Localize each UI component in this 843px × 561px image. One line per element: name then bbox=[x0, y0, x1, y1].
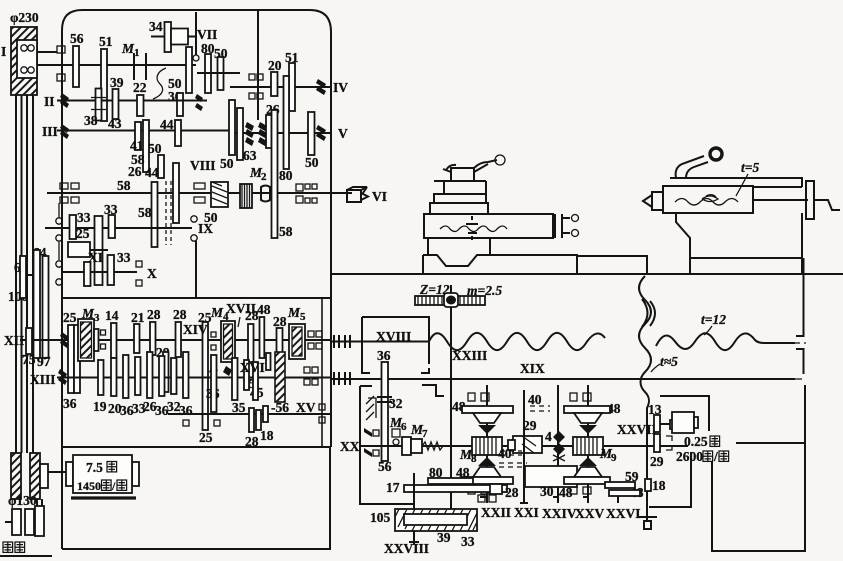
svg-text:0.25: 0.25 bbox=[684, 434, 708, 449]
svg-text:63: 63 bbox=[243, 148, 257, 163]
svg-text:29: 29 bbox=[523, 418, 537, 433]
svg-text:XVI: XVI bbox=[240, 360, 265, 375]
svg-text:XXII: XXII bbox=[481, 505, 511, 520]
svg-text:-56: -56 bbox=[271, 400, 289, 415]
svg-text:32: 32 bbox=[389, 396, 403, 411]
svg-text:36: 36 bbox=[179, 403, 193, 418]
svg-text:22: 22 bbox=[133, 80, 147, 95]
svg-text:XIX: XIX bbox=[520, 361, 545, 376]
svg-text:26: 26 bbox=[128, 164, 142, 179]
svg-text:XIV: XIV bbox=[183, 322, 208, 337]
svg-text:XXVII: XXVII bbox=[617, 422, 657, 437]
svg-text:IX: IX bbox=[198, 221, 213, 236]
svg-text:44: 44 bbox=[145, 165, 159, 180]
svg-text:58: 58 bbox=[138, 205, 152, 220]
svg-text:50: 50 bbox=[305, 155, 319, 170]
svg-text:XXIII: XXIII bbox=[452, 348, 487, 363]
svg-text:34: 34 bbox=[149, 19, 163, 34]
svg-text:I: I bbox=[1, 44, 6, 59]
svg-text:VIII: VIII bbox=[190, 158, 216, 173]
svg-text:43: 43 bbox=[108, 116, 122, 131]
svg-text:28: 28 bbox=[147, 307, 161, 322]
svg-text:28: 28 bbox=[173, 307, 187, 322]
svg-text:XXIV: XXIV bbox=[542, 506, 577, 521]
svg-text:41: 41 bbox=[130, 138, 144, 153]
svg-text:30: 30 bbox=[540, 484, 554, 499]
svg-text:III: III bbox=[42, 124, 58, 139]
svg-text:/: / bbox=[111, 479, 116, 493]
svg-text:97: 97 bbox=[37, 354, 51, 369]
svg-text:19: 19 bbox=[93, 399, 107, 414]
svg-text:38: 38 bbox=[84, 113, 98, 128]
svg-text:25: 25 bbox=[76, 226, 90, 241]
svg-text:40: 40 bbox=[528, 392, 542, 407]
svg-text:44: 44 bbox=[160, 117, 174, 132]
svg-text:40: 40 bbox=[498, 446, 512, 461]
svg-text:IV: IV bbox=[333, 80, 348, 95]
svg-text:t=12: t=12 bbox=[701, 312, 726, 327]
svg-text:φ130: φ130 bbox=[8, 493, 37, 508]
svg-text:36: 36 bbox=[63, 396, 77, 411]
svg-text:29: 29 bbox=[650, 454, 664, 469]
svg-text:20: 20 bbox=[268, 58, 282, 73]
svg-text:14: 14 bbox=[105, 308, 119, 323]
svg-text:25: 25 bbox=[199, 430, 213, 445]
svg-text:t=5: t=5 bbox=[741, 160, 759, 175]
svg-text:9: 9 bbox=[611, 452, 617, 464]
svg-text:V: V bbox=[338, 126, 348, 141]
svg-text:XII: XII bbox=[4, 333, 24, 348]
svg-text:25: 25 bbox=[63, 310, 77, 325]
svg-text:33: 33 bbox=[77, 210, 91, 225]
svg-text:M: M bbox=[287, 305, 301, 320]
svg-text:39: 39 bbox=[437, 530, 451, 545]
svg-text:II: II bbox=[44, 94, 55, 109]
svg-text:φ230: φ230 bbox=[10, 10, 39, 25]
svg-text:21: 21 bbox=[131, 310, 145, 325]
svg-text:t≈5: t≈5 bbox=[660, 354, 678, 369]
svg-text:1450: 1450 bbox=[77, 479, 101, 493]
svg-text:XXVIII: XXVIII bbox=[384, 541, 429, 556]
svg-text:3: 3 bbox=[94, 312, 100, 324]
svg-text:35: 35 bbox=[232, 400, 246, 415]
svg-text:XIII: XIII bbox=[30, 372, 56, 387]
svg-text:4: 4 bbox=[545, 429, 552, 444]
svg-text:6: 6 bbox=[401, 421, 407, 433]
svg-text:58: 58 bbox=[279, 224, 293, 239]
svg-text:XV: XV bbox=[296, 400, 316, 415]
svg-text:50: 50 bbox=[220, 156, 234, 171]
svg-text:33: 33 bbox=[461, 534, 475, 549]
svg-text:X: X bbox=[147, 266, 157, 281]
svg-text:M: M bbox=[121, 41, 135, 56]
svg-text:7.5: 7.5 bbox=[86, 460, 103, 475]
svg-text:28: 28 bbox=[273, 314, 287, 329]
svg-text:5: 5 bbox=[300, 311, 306, 323]
svg-text:XVIII: XVIII bbox=[376, 329, 411, 344]
svg-text:2600: 2600 bbox=[676, 449, 703, 464]
svg-text:36: 36 bbox=[377, 348, 391, 363]
svg-text:18: 18 bbox=[260, 428, 274, 443]
svg-text:80: 80 bbox=[279, 168, 293, 183]
svg-text:28: 28 bbox=[245, 434, 259, 449]
svg-text:17: 17 bbox=[386, 480, 400, 495]
svg-text:VI: VI bbox=[372, 189, 387, 204]
svg-text:8: 8 bbox=[471, 453, 477, 465]
svg-text:XXI: XXI bbox=[514, 505, 539, 520]
svg-text:33: 33 bbox=[117, 250, 131, 265]
svg-text:105: 105 bbox=[370, 510, 391, 525]
svg-text:48: 48 bbox=[257, 302, 271, 317]
svg-text:56: 56 bbox=[70, 31, 84, 46]
svg-text:39: 39 bbox=[110, 75, 124, 90]
svg-text:XXV: XXV bbox=[575, 506, 604, 521]
svg-text:28: 28 bbox=[505, 485, 519, 500]
svg-text:/: / bbox=[713, 449, 718, 464]
svg-text:58: 58 bbox=[117, 178, 131, 193]
svg-text:XXVI: XXVI bbox=[606, 506, 641, 521]
svg-text:50: 50 bbox=[148, 141, 162, 156]
svg-text:56: 56 bbox=[378, 459, 392, 474]
svg-text:XX: XX bbox=[340, 439, 360, 454]
svg-text:VII: VII bbox=[197, 27, 217, 42]
svg-text:18: 18 bbox=[652, 478, 666, 493]
svg-text:M: M bbox=[210, 305, 224, 320]
svg-text:2: 2 bbox=[261, 171, 267, 183]
svg-text:51: 51 bbox=[99, 34, 113, 49]
